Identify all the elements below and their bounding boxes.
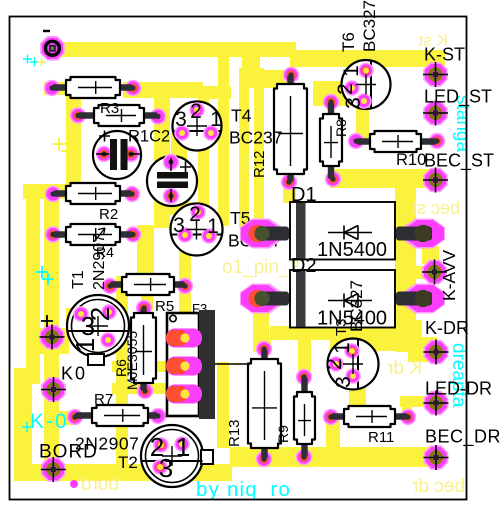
wire net V+ top rail right: [290, 50, 445, 67]
wire stub R12 bottom to D1: [283, 185, 296, 203]
resistor R1: [44, 77, 141, 98]
svg-text:K dr: K dr: [386, 358, 422, 379]
wire stub R1 left: [44, 82, 70, 95]
wire left rail lower: [14, 368, 32, 480]
pad LED-DR: [424, 391, 449, 416]
resistor R3: [70, 105, 166, 126]
resistor R6: [131, 300, 156, 399]
pad K0 upper: [40, 325, 65, 350]
wire column to R9 top: [298, 332, 311, 378]
transistor T4: [173, 100, 222, 151]
svg-text:bec st: bec st: [412, 198, 460, 218]
wire column T4 center: [198, 86, 209, 212]
wire column jog to R5: [137, 225, 154, 273]
registration cross yellow top-left: [37, 58, 46, 67]
pad MJE3055 pin 1: [166, 329, 202, 348]
wire R2 row junction block: [23, 184, 81, 199]
svg-text:R7: R7: [94, 391, 113, 408]
pad MJE3055 pin 2: [166, 357, 202, 376]
svg-text:3: 3: [175, 108, 187, 131]
wire stub C1 top to T4: [171, 130, 187, 176]
svg-text:T6: T6: [339, 32, 358, 52]
svg-text:BEC_ST: BEC_ST: [424, 151, 494, 172]
registration cross cyan top-left: [23, 55, 39, 67]
wire arm to K-DR pad: [408, 337, 437, 362]
wire column T3 to R11: [349, 328, 366, 408]
svg-text:K-AVV: K-AVV: [439, 249, 459, 301]
pad K0 lower: [41, 377, 66, 402]
resistor R4: [45, 224, 141, 245]
wire K0 column: [44, 188, 59, 470]
polarity mark + near T1: [41, 315, 53, 327]
resistor R13: [248, 341, 281, 467]
registration cross cyan bottom-left: [22, 422, 32, 432]
resistor R11: [323, 406, 416, 427]
pad K-DR: [424, 340, 449, 365]
pad K-AVV right (D2): [396, 284, 445, 314]
svg-text:BC237: BC237: [229, 128, 283, 148]
wire column T6 to R10: [356, 95, 369, 143]
wire column mid C: [254, 68, 264, 225]
svg-text:R3: R3: [100, 100, 119, 117]
pad K-AVV right (D1): [396, 219, 445, 249]
transistor MJE3055 (TO-220): [166, 310, 250, 419]
svg-text:R1C2: R1C2: [128, 128, 170, 146]
svg-text:BORD: BORD: [39, 442, 98, 463]
svg-text:R2: R2: [99, 206, 118, 223]
svg-text:R13: R13: [226, 419, 243, 447]
wire column T5 to R5R to MJE pin1: [179, 238, 191, 332]
pad BORD: [41, 457, 66, 482]
pad K-ST: [423, 62, 448, 87]
wire H band to MJE pin3: [112, 383, 185, 394]
wire diode right column: [395, 169, 416, 352]
svg-text:D1: D1: [291, 184, 317, 206]
svg-text:LED_ST: LED_ST: [424, 87, 492, 108]
svg-text:BC327: BC327: [347, 280, 366, 332]
transistor T6: [334, 60, 391, 109]
wire column mid join: [242, 45, 260, 75]
wire stub R7 left: [54, 411, 77, 425]
via bottom-left: [70, 480, 78, 488]
svg-text:R9: R9: [275, 425, 291, 443]
svg-text:1: 1: [70, 338, 100, 352]
transistor T1: [67, 295, 129, 365]
svg-text:3: 3: [342, 97, 365, 109]
svg-text:T4: T4: [231, 106, 252, 126]
svg-text:1: 1: [340, 65, 363, 77]
pad BEC_DR: [424, 445, 449, 470]
wire stub R11 left down: [326, 417, 340, 450]
svg-text:R8: R8: [333, 119, 349, 137]
wire R1 right to mid column: [123, 82, 203, 98]
svg-text:by niq_ro: by niq_ro: [196, 478, 291, 501]
wire H band to MJE pin2: [112, 361, 185, 372]
wire stub T1 pin1: [104, 334, 120, 346]
svg-text:BEC_DR: BEC_DR: [425, 427, 500, 448]
wire mid-left column: [116, 276, 128, 466]
wire stub C1 bottom to T5: [167, 190, 190, 215]
resistor R7: [67, 405, 166, 426]
wire branch T4 horizontal: [198, 86, 231, 99]
registration cross yellow mid-left: [53, 138, 74, 158]
wire patch R8-T6: [313, 81, 360, 106]
wire net V+ top rail: [52, 42, 296, 57]
wire stub R13 top: [258, 337, 271, 351]
svg-text:LED-DR: LED-DR: [425, 379, 492, 399]
svg-text:K-ST: K-ST: [424, 45, 465, 65]
wire stub R11 right up: [402, 398, 412, 418]
polarity mark -: [43, 30, 50, 32]
pad K-AVV: [422, 260, 447, 285]
wire left rail upper: [26, 184, 40, 376]
wire stub R6 top: [141, 292, 153, 310]
wire bottom rail left: [14, 464, 232, 481]
transistor T2: [141, 425, 213, 487]
pad BEC_ST: [423, 168, 448, 193]
transistor T3: [323, 339, 379, 390]
svg-text:K0: K0: [61, 364, 87, 384]
svg-text:K-0: K-0: [30, 410, 69, 433]
svg-text:o1_pin_2: o1_pin_2: [222, 257, 300, 278]
svg-text:2: 2: [85, 307, 115, 321]
resistor R8: [320, 94, 342, 187]
svg-text:K-DR: K-DR: [425, 318, 469, 338]
registration cross cyan left: [36, 266, 54, 285]
wire stub T1 pin3: [66, 308, 88, 324]
svg-text:T2: T2: [118, 453, 138, 472]
resistor R10: [348, 131, 445, 152]
diode D2: [290, 270, 395, 328]
svg-text:R10: R10: [396, 151, 426, 169]
resistor R9: [294, 369, 315, 465]
svg-text:bord: bord: [81, 474, 119, 495]
wire K-DR band thin: [270, 326, 332, 340]
pad K-AVV left (D2): [240, 284, 289, 314]
wire column mid A: [218, 45, 229, 226]
wire K-DR band: [330, 320, 422, 351]
svg-text:2: 2: [334, 83, 357, 95]
svg-text:2N2907: 2N2907: [91, 234, 108, 290]
pad MJE3055 pin 3: [166, 385, 202, 404]
svg-text:1: 1: [176, 432, 190, 462]
svg-text:2: 2: [189, 203, 201, 226]
wire vertical R1-R3-R2 left: [66, 82, 81, 199]
svg-text:3: 3: [173, 214, 185, 237]
svg-text:R12: R12: [251, 150, 268, 178]
wire K0 pad patch: [38, 328, 69, 354]
wire BEC_ST branch: [330, 169, 432, 188]
diode D1: [290, 202, 395, 260]
capacitor C2: [93, 131, 141, 180]
svg-text:3: 3: [332, 376, 355, 388]
pad LED_ST: [423, 101, 448, 126]
wire bottom rail right: [230, 447, 438, 467]
svg-text:1N5400: 1N5400: [317, 239, 387, 261]
resistor R5: [102, 274, 193, 295]
wire stub T1 pin2: [104, 306, 120, 318]
svg-text:3: 3: [159, 453, 173, 483]
wire stub MJE pin1: [177, 312, 187, 332]
svg-text:D2: D2: [291, 255, 317, 277]
pad K-AVV left (D1): [240, 219, 289, 249]
svg-text:1: 1: [210, 108, 222, 131]
capacitor C1: [147, 154, 197, 206]
svg-text:R11: R11: [368, 429, 394, 446]
svg-text:T1: T1: [70, 270, 87, 289]
wire column R3-T5: [154, 98, 170, 228]
resistor R2: [45, 183, 140, 204]
svg-text:BC327: BC327: [360, 0, 379, 52]
wire stub K-AVV up: [422, 246, 439, 264]
transistor T5: [171, 203, 223, 256]
svg-text:2: 2: [323, 358, 346, 370]
wire column D2 to R13: [253, 304, 269, 352]
svg-text:2: 2: [190, 100, 202, 123]
wire arm LED-DR: [400, 396, 434, 407]
svg-text:1: 1: [331, 342, 354, 354]
svg-text:1: 1: [207, 215, 219, 238]
wire column mid B: [239, 68, 249, 228]
resistor R12: [274, 67, 307, 190]
wire stub K-AVV: [410, 266, 428, 279]
wire mid column to bottom: [217, 362, 229, 448]
svg-text:bec dr: bec dr: [412, 476, 465, 497]
pad V- power: [40, 36, 65, 61]
wire left rail jog: [14, 368, 40, 384]
wire branch to R12 top: [239, 70, 294, 88]
